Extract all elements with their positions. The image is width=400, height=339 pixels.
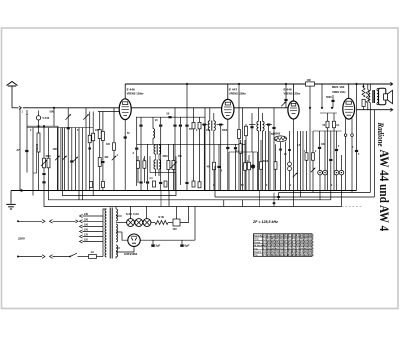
svg-text:E 447: E 447 xyxy=(229,88,237,92)
IF1 core xyxy=(211,121,213,131)
wire top caps row v1 xyxy=(140,117,142,124)
wire gang line a xyxy=(56,128,58,191)
wire gang line d xyxy=(67,108,69,191)
wire T1 top tap xyxy=(115,207,117,210)
selector tap 110V xyxy=(80,240,83,243)
wire x270 drop xyxy=(269,131,271,191)
capacitor x235 xyxy=(235,144,237,147)
wire bus y197 nested xyxy=(215,196,374,198)
node x322 xyxy=(321,107,323,109)
wire bus y192.5 nested xyxy=(279,192,371,194)
bandfilter coil upper right xyxy=(159,145,161,154)
capacitor x280 xyxy=(279,149,282,151)
svg-text:2μF: 2μF xyxy=(156,244,161,248)
svg-text:5000: 5000 xyxy=(263,161,269,163)
node x310 bus xyxy=(309,107,311,109)
selector tap 240V xyxy=(80,214,83,217)
IF2 secondary coil xyxy=(262,113,264,121)
resistor bottom 154 xyxy=(153,181,156,187)
IF1 primary coil xyxy=(209,108,211,121)
speaker LS voice coil xyxy=(384,94,388,100)
wire anode supply top bus xyxy=(125,83,392,85)
wire fuse to transformer xyxy=(97,256,104,258)
speaker LS basket xyxy=(379,88,386,104)
capacitor dark on switch line xyxy=(25,150,28,152)
svg-text:G354/1064: G354/1064 xyxy=(124,252,138,256)
bandfilter coil lower right xyxy=(159,160,161,169)
resistor x245b xyxy=(244,163,247,171)
wire T1 tap 248 xyxy=(116,247,120,249)
svg-text:100: 100 xyxy=(307,78,312,82)
capacitor x356 xyxy=(355,150,358,152)
tube V2 cathode xyxy=(226,115,230,117)
wire junction row xyxy=(27,125,58,127)
wire bus y206.5 dashed tail xyxy=(342,206,363,208)
node x356 top xyxy=(355,83,357,85)
terminal mains L1 xyxy=(17,220,19,222)
capacitor stub blob xyxy=(273,202,276,204)
wire x114 chain xyxy=(113,108,115,142)
resistor speaker hum-buck zigzag xyxy=(367,84,369,90)
svg-text:240: 240 xyxy=(84,213,89,216)
wire mains L2 cont xyxy=(53,256,71,258)
choke box xyxy=(173,219,180,226)
wire B+ riser xyxy=(194,207,196,241)
variable arrow x313 xyxy=(311,168,316,173)
resistor x214 xyxy=(213,144,215,162)
tube V3 E446 envelope xyxy=(288,101,299,119)
transformer T-out primary coil xyxy=(369,84,371,91)
tube V4 grids xyxy=(345,106,354,108)
svg-text:VRENS 128kv: VRENS 128kv xyxy=(229,92,246,96)
wire x356 long drop xyxy=(356,84,358,191)
wire top feed x239 xyxy=(238,84,240,191)
tube V1 anode xyxy=(123,102,128,105)
wire lamps to resistor xyxy=(151,222,155,224)
wire y199.8 riser x79 xyxy=(78,128,80,200)
resistor Rg2 xyxy=(92,112,94,134)
wire T1 tap 216 xyxy=(116,215,122,217)
wire x160 drop xyxy=(160,117,162,124)
svg-text:125: 125 xyxy=(84,234,89,237)
wire bus y199.8 nested xyxy=(49,191,331,200)
wire x229 drop xyxy=(228,152,230,191)
resistor small bottom b1 xyxy=(90,182,93,188)
svg-text:1000: 1000 xyxy=(53,149,59,151)
tube V4 RES164 envelope xyxy=(343,98,355,119)
capacitor on V2 drop xyxy=(226,147,229,149)
resistor x275 xyxy=(275,144,277,161)
tube V1 grids xyxy=(122,106,130,108)
resistor Rg1 xyxy=(89,112,91,136)
capacitor on V1 drop xyxy=(124,136,127,138)
wire x58 drop xyxy=(57,126,59,190)
antenna A1 xyxy=(7,82,18,108)
wire x286 top with cap xyxy=(285,84,287,108)
variable arrow 283 xyxy=(281,102,286,107)
wire mains L1 cont xyxy=(53,220,76,222)
IF2 primary coil xyxy=(258,108,260,122)
capacitor dark bottom2 xyxy=(146,181,149,183)
variable arrow c xyxy=(62,156,67,161)
transformer T1 secondary bottom xyxy=(116,245,118,257)
transformer T1 core xyxy=(109,208,111,259)
wire V3 anode riser xyxy=(293,84,295,101)
component box under field arrow xyxy=(362,99,365,106)
svg-text:140: 140 xyxy=(173,228,178,231)
node x239 top xyxy=(238,83,240,85)
svg-text:100: 100 xyxy=(106,143,111,146)
resistor 199 xyxy=(199,117,201,122)
capacitor x336 xyxy=(336,131,338,149)
wire x161 drop xyxy=(160,191,162,207)
wire V1 grid line left xyxy=(98,111,119,113)
capacitor electrolytic 8uF xyxy=(181,240,183,244)
capacitor x274 xyxy=(273,108,275,127)
wire V2 plate line xyxy=(234,107,288,109)
wire x322 riser xyxy=(321,84,323,108)
tube V1 E446 envelope xyxy=(119,99,131,120)
plug connector L1 xyxy=(42,220,45,224)
tube V3 anode xyxy=(291,103,296,106)
capacitor IF2 right xyxy=(266,124,273,126)
wire x374 long drop xyxy=(373,110,375,197)
wire stub x223 to supply bus xyxy=(223,200,225,207)
wire ground bus y190.5 xyxy=(11,190,357,192)
node x187 top xyxy=(186,83,188,85)
wire x147 chain xyxy=(147,144,149,181)
resistor x239 xyxy=(238,130,241,139)
padder with arrow xyxy=(173,144,175,160)
resistor field coil (diagonal variable) xyxy=(363,84,365,88)
wire AVC line xyxy=(137,143,245,145)
wire T1 tap 232 xyxy=(116,231,122,233)
wire right terminal arrow top xyxy=(390,82,393,85)
resistor bf3 xyxy=(167,144,169,160)
wire x215 riser xyxy=(214,166,216,197)
wire antenna lead-in with plug xyxy=(12,107,19,109)
resistor x306 xyxy=(306,131,308,153)
wire speaker bottom line xyxy=(357,109,393,111)
selector tap 150V xyxy=(80,230,83,233)
svg-text:50000: 50000 xyxy=(273,132,281,136)
wire gang line e xyxy=(71,128,73,191)
capacitor dark 180 xyxy=(179,117,181,124)
transformer T-out core xyxy=(372,90,374,103)
wire x310 drop xyxy=(309,86,311,190)
bandfilter coil upper left xyxy=(154,145,156,154)
capacitor blob uF xyxy=(42,181,45,183)
capacitor dark y117 xyxy=(168,116,171,118)
terminal mains L2 xyxy=(17,256,19,258)
wire x44 chain xyxy=(43,126,45,158)
wire diode load line y152 xyxy=(229,151,258,153)
variable arrow a xyxy=(55,156,60,161)
wire bus y195.5 nested xyxy=(63,128,177,196)
capacitor dark 175 xyxy=(174,108,176,125)
wire trimmer to junction xyxy=(38,120,40,126)
jack circle pair A xyxy=(318,170,323,175)
lamp LP2 xyxy=(135,219,143,227)
transformer T1 secondary top xyxy=(116,209,118,221)
tube V3 grids xyxy=(290,107,297,109)
tuning capacitor arrow 1 xyxy=(65,114,71,120)
wire lamp feed riser xyxy=(130,207,132,219)
svg-text:8μF: 8μF xyxy=(185,244,190,248)
wire osc left drop xyxy=(136,117,138,147)
wire x169 drop to supply xyxy=(168,191,170,207)
wire mains L2 xyxy=(18,256,42,258)
resistor 193 xyxy=(193,108,195,122)
svg-text:27,976,630,320,941,663,803,295: 27,976,630,320,941,663,803,295,878,701,0… xyxy=(263,253,314,257)
svg-text:R 30: R 30 xyxy=(159,215,165,219)
capacitor x252 xyxy=(251,113,253,126)
capacitor x289 with twin circles xyxy=(289,131,291,162)
capacitor dark 160b xyxy=(159,182,162,184)
tube V4 cathode xyxy=(347,114,352,116)
tube V2 grids xyxy=(224,106,232,108)
resistor plain x48.5 xyxy=(48,128,50,159)
jack circle pair B xyxy=(334,170,339,175)
fuse 1A xyxy=(89,255,97,259)
transformer T1 primary coil xyxy=(105,209,107,257)
wire grid stub y113 xyxy=(320,112,337,114)
capacitor dark osc xyxy=(135,148,138,150)
potentiometer 50000 (oval) xyxy=(274,136,286,142)
svg-text:Radione: Radione xyxy=(376,122,386,148)
capacitor electrolytic 2uF xyxy=(152,240,154,244)
resistor x261 xyxy=(260,140,262,162)
capacitor x219 xyxy=(218,144,220,165)
resistor x246 xyxy=(245,124,247,126)
resistor V4 left 0,1 xyxy=(327,113,329,121)
resistor V4 left 50 xyxy=(333,113,335,121)
wire primary top to selector xyxy=(103,209,107,257)
svg-text:5-540: 5-540 xyxy=(43,116,50,120)
resistor x240 tall xyxy=(240,140,242,144)
resistor x313 xyxy=(312,131,314,153)
wire choke up xyxy=(176,207,178,220)
wire plate line V1 to V2 xyxy=(131,107,221,109)
wire bus y206.5 long xyxy=(44,191,342,207)
wire V2 anode riser xyxy=(227,84,229,99)
svg-text:150: 150 xyxy=(84,229,89,232)
transformer T1 secondary mid xyxy=(116,224,118,242)
tuning capacitor arrow 2 xyxy=(83,114,89,120)
selector tap 220V xyxy=(80,220,83,223)
wire rectifier output xyxy=(140,239,195,241)
wire stub x259 to supply bus xyxy=(259,191,261,207)
volume pot junction blob xyxy=(252,152,254,191)
trimmer capacitor circle xyxy=(36,116,40,120)
variable arrow x114 xyxy=(112,156,117,161)
svg-text:110: 110 xyxy=(84,239,89,242)
wire T1 bottom tap xyxy=(115,257,117,259)
svg-text:3000: 3000 xyxy=(163,156,169,158)
wire x303 drop xyxy=(302,131,304,191)
wire V2 cathode drop xyxy=(227,119,229,190)
svg-text:5000: 5000 xyxy=(222,130,228,132)
wire switch to fuse xyxy=(78,256,89,258)
node V4 grid xyxy=(331,107,333,109)
capacitor dark 160 xyxy=(159,125,162,127)
svg-text:E 446: E 446 xyxy=(127,88,135,92)
svg-text:E 446: E 446 xyxy=(284,88,292,92)
wire x300 drop xyxy=(300,131,302,197)
capacitor blob 4000 xyxy=(42,173,45,175)
wire resistor to choke xyxy=(168,222,173,224)
wire gang line f xyxy=(75,128,77,191)
wire x82 drop xyxy=(81,128,83,200)
svg-text:1A: 1A xyxy=(91,250,94,254)
wire lamp feed riser 2 xyxy=(146,207,148,219)
capacitor dark 286 xyxy=(284,99,287,101)
svg-text:27: 27 xyxy=(16,148,21,152)
wire bandfilter enclosure xyxy=(150,156,176,172)
tube V2 E447 envelope xyxy=(222,99,234,119)
resistor Rg4 xyxy=(102,112,104,132)
transformer T-out secondary coil xyxy=(377,91,379,103)
wire x370 long drop xyxy=(369,110,371,193)
svg-text:ZF = 128,5 kHz: ZF = 128,5 kHz xyxy=(252,220,278,224)
wire V1 anode riser xyxy=(124,84,126,99)
resistor R osc padding xyxy=(38,126,40,133)
capacitor IF2 left xyxy=(249,124,256,126)
node j2 xyxy=(43,125,45,127)
oscillator coil L-osc xyxy=(152,117,154,128)
tube V4 anode xyxy=(346,101,351,104)
svg-text:5000: 5000 xyxy=(326,96,332,99)
svg-text:220: 220 xyxy=(84,219,89,222)
resistor with arrow x44 xyxy=(43,158,46,168)
plug connector L2 xyxy=(42,255,45,259)
wire mains L1 xyxy=(18,220,42,222)
wire narrow loop xyxy=(33,150,37,173)
wire bandfilter links xyxy=(155,154,157,160)
wire gang line c xyxy=(63,128,65,191)
wire gang line b xyxy=(60,128,62,191)
capacitor dark bottom1 xyxy=(139,181,142,183)
speaker LS cone xyxy=(388,90,393,103)
svg-text:U g1 V: U g1 V xyxy=(254,252,261,254)
wire x54 drop xyxy=(53,108,55,126)
svg-text:VRENS 129kv: VRENS 129kv xyxy=(127,92,144,96)
wire stub x242 to supply bus xyxy=(242,200,244,207)
wire y117 line xyxy=(136,116,205,118)
svg-text:I an: I an xyxy=(254,248,258,250)
wire x33 drop xyxy=(32,128,34,196)
wire x257 drop xyxy=(257,152,259,191)
wire x330 drop with cap xyxy=(330,131,332,159)
tube V2 anode xyxy=(225,102,230,105)
plug break on ground bus xyxy=(21,189,24,192)
wire rectifier bottom xyxy=(116,246,134,252)
capacitor blob 278 low xyxy=(278,193,280,200)
node j1 xyxy=(37,125,39,127)
capacitor grid V4 xyxy=(331,100,334,102)
resistor 100 on top bus xyxy=(306,82,315,86)
ground symbol xyxy=(10,191,12,204)
capacitor IF1 left xyxy=(202,124,208,126)
capacitor mark xyxy=(88,148,91,150)
svg-text:3000: 3000 xyxy=(46,156,52,158)
wire x242 drop xyxy=(242,108,244,191)
svg-text:U an: U an xyxy=(254,239,259,241)
resistor Rg3 upper xyxy=(99,112,101,131)
wire V1 cathode drop xyxy=(124,120,126,191)
resistor small bottom b2 xyxy=(102,182,105,188)
wire x280 drop xyxy=(280,142,282,191)
bandfilter core lower xyxy=(156,160,158,170)
wire horizontal y127.5 xyxy=(27,127,93,129)
capacitor IF1 right xyxy=(217,124,224,126)
resistor bottom 165 xyxy=(164,181,167,187)
IF1 secondary coil xyxy=(213,113,215,121)
tube V1 cathode xyxy=(123,114,127,116)
wire tuning line g xyxy=(85,108,87,191)
capacitor dark g4 xyxy=(101,161,104,163)
resistor bf1 xyxy=(137,156,139,161)
tube V4 pin wires xyxy=(345,118,347,134)
svg-text:VRES 164v: VRES 164v xyxy=(332,90,346,94)
selector tap 190V xyxy=(80,225,83,228)
bandfilter core upper xyxy=(156,145,158,155)
node x286 xyxy=(285,83,287,85)
wire x285 drop xyxy=(285,142,287,191)
wire stub x274 to supply bus xyxy=(273,193,275,207)
tube V3 cathode xyxy=(292,112,296,114)
wire choke right xyxy=(180,207,189,223)
wire x297 drop xyxy=(297,131,299,191)
bandfilter coil lower left xyxy=(154,160,156,169)
selector tap 125V xyxy=(80,235,83,238)
svg-text:6,3V, 0,3A: 6,3V, 0,3A xyxy=(126,212,139,216)
wire rectifier left loop xyxy=(122,232,128,240)
rectifier tube V5 xyxy=(128,234,140,246)
table measurement values grid xyxy=(254,234,313,256)
resistor bf2 xyxy=(143,156,145,161)
lamp LP1 xyxy=(127,219,135,227)
capacitor dark 187 row xyxy=(186,84,188,124)
switch mains xyxy=(70,253,77,256)
wire T1 tap 222 to lamps xyxy=(116,222,127,224)
capacitor dark e xyxy=(70,160,73,162)
wire grid bus y131 xyxy=(313,130,342,132)
resistor Rg3 lower xyxy=(98,158,101,167)
wire x319 with cap and jack circles xyxy=(319,131,321,147)
svg-text:10000: 10000 xyxy=(35,144,37,151)
svg-text:190: 190 xyxy=(84,224,89,227)
node antenna junction xyxy=(53,107,55,109)
switch band selector xyxy=(26,110,28,114)
wire V3 cathode drop xyxy=(293,119,295,207)
wire left vertical from antenna bus xyxy=(19,108,21,191)
wire x205 drop xyxy=(204,108,206,191)
svg-text:RES 164: RES 164 xyxy=(332,85,345,89)
variable arrow f xyxy=(73,157,78,162)
lamp LP3 xyxy=(143,219,151,227)
capacitor dark row1 xyxy=(139,125,142,127)
capacitor dark on gang d xyxy=(67,127,70,129)
svg-text:AW 44 und AW 4: AW 44 und AW 4 xyxy=(377,150,392,232)
wire V4 anode riser xyxy=(348,84,350,98)
resistor R smoothing zigzag xyxy=(155,221,168,225)
pin terminal circles V4 xyxy=(344,134,347,137)
variable arrow 294 xyxy=(293,173,298,178)
svg-text:220V: 220V xyxy=(17,237,26,241)
svg-text:U sch: U sch xyxy=(254,242,261,244)
IF2 core xyxy=(260,121,262,131)
